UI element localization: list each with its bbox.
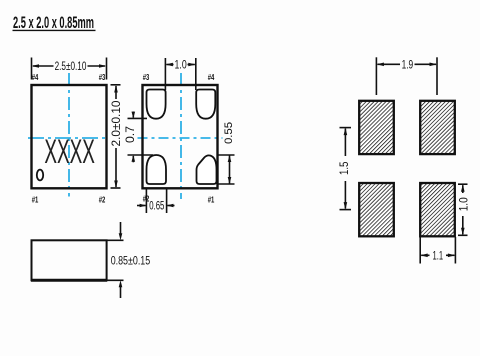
dimension 1.1 (land pad width) (420, 237, 455, 264)
pin label #3 (99, 73, 106, 82)
title 2.5 x 2.0 x 0.85mm (13, 14, 96, 32)
svg-text:#2: #2 (99, 196, 106, 205)
svg-text:0.7: 0.7 (123, 126, 137, 143)
svg-text:#1: #1 (208, 196, 215, 205)
dimension 1.0 (pad gap) (165, 58, 195, 90)
svg-text:XXXX: XXXX (44, 133, 95, 171)
svg-text:1.1: 1.1 (433, 248, 444, 262)
pad #2 (view2 bottom-left) (147, 155, 167, 184)
svg-text:1.0: 1.0 (456, 197, 470, 211)
pin label #1 (view2) (208, 196, 215, 205)
pin label #2 (view2) (143, 195, 150, 204)
pin label #4 (32, 73, 39, 82)
package outline view1 (32, 85, 107, 188)
svg-text:#1: #1 (32, 196, 39, 205)
pin label #4 (view2) (208, 73, 215, 82)
svg-text:#4: #4 (208, 73, 215, 82)
land pad top-right (420, 101, 455, 154)
svg-text:0.65: 0.65 (149, 199, 164, 213)
centerline horizontal view1 (28, 137, 106, 139)
side view outline (31, 240, 107, 280)
pin label #2 (99, 196, 106, 205)
dimension 1.5 (337, 128, 351, 210)
land pad bottom-left (359, 183, 394, 236)
svg-text:1.5: 1.5 (337, 161, 351, 175)
centerline horizontal view2 (138, 137, 223, 139)
dimension 0.65 (pad width) (137, 189, 175, 213)
svg-text:1.9: 1.9 (402, 57, 414, 71)
land pad top-left (359, 101, 394, 154)
dimension 2.0±0.10 (109, 85, 123, 188)
svg-text:#3: #3 (143, 73, 150, 82)
dimension 1.0 (land pad height) (456, 184, 470, 235)
centerline vertical view1 (68, 73, 70, 197)
package outline view2 (143, 85, 218, 188)
dimension 2.5±0.10 (32, 58, 107, 80)
svg-text:0.55: 0.55 (223, 122, 235, 144)
pin1 index circle (37, 170, 43, 181)
dimension 1.9 (376, 57, 437, 95)
svg-text:1.0: 1.0 (175, 58, 188, 72)
dimension 0.55 (pad height) (218, 122, 235, 184)
dimension 0.85±0.15 (107, 222, 151, 298)
svg-text:#4: #4 (32, 73, 39, 82)
marking XXXX (44, 133, 95, 171)
pad #1 (view2 bottom-right, chamfered) (197, 155, 217, 184)
svg-text:0.85±0.15: 0.85±0.15 (111, 254, 151, 268)
svg-text:2.0±0.10: 2.0±0.10 (109, 100, 123, 146)
pin label #1 (32, 196, 39, 205)
pin label #3 (view2) (143, 73, 150, 82)
pad #4 (view2 top-right) (196, 90, 215, 119)
land pad bottom-right (420, 183, 455, 236)
dimension 0.7 (vertical pad gap) (123, 112, 153, 163)
svg-text:2.5±0.10: 2.5±0.10 (55, 59, 87, 73)
svg-text:2.5 x 2.0 x 0.85mm: 2.5 x 2.0 x 0.85mm (13, 14, 94, 32)
svg-text:#3: #3 (99, 73, 106, 82)
pad #3 (view2 top-left) (147, 90, 166, 119)
centerline vertical view2 (180, 73, 182, 199)
